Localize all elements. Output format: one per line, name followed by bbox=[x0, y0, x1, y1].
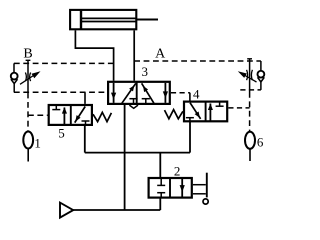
valve 4 left square diagonal arrow bbox=[190, 103, 201, 119]
wire supply manifold horizontal bbox=[85, 152, 190, 154]
pilot line A (dashed) bbox=[134, 60, 261, 62]
svg-text:A: A bbox=[155, 47, 166, 62]
valve 4 left square blocked port T bbox=[186, 118, 194, 122]
label A bbox=[155, 47, 166, 62]
svg-text:2: 2 bbox=[174, 164, 181, 179]
valve 2 bottom blocked port T bbox=[157, 193, 165, 198]
label 1 bbox=[34, 135, 41, 150]
valve 3 right pilot line (dashed) bbox=[171, 92, 190, 94]
valve 5 spring bbox=[93, 112, 111, 121]
valve 2 roller lever bbox=[206, 173, 208, 198]
valve 3 left square blocked port T bbox=[129, 99, 137, 104]
valve 3 left square down arrow bbox=[111, 83, 116, 103]
svg-text:1: 1 bbox=[34, 135, 41, 150]
cylinder body bbox=[70, 10, 136, 29]
valve 5 body bbox=[49, 105, 92, 125]
cylinder rod external bbox=[136, 19, 158, 21]
svg-text:B: B bbox=[23, 47, 32, 62]
flow control valve 6R: bottom dashed line bbox=[240, 89, 261, 91]
valve 4 body bbox=[184, 102, 227, 122]
svg-text:5: 5 bbox=[58, 126, 65, 141]
flow control valve 1L: throttle line bbox=[26, 60, 31, 92]
label B bbox=[23, 47, 32, 62]
flow control valve 1L: check valve ball bbox=[11, 73, 18, 80]
component 1 (oval) bbox=[23, 132, 33, 162]
flow control valve 1L: check branch line bbox=[13, 63, 15, 92]
wire valve 2 top riser bbox=[159, 153, 161, 178]
valve 2 roller wheel bbox=[203, 199, 208, 204]
wire supply riser valve 3 to source line bbox=[124, 104, 126, 210]
valve 4 right square up arrow bbox=[208, 103, 213, 121]
flow control valve 1L: adjust arrow bbox=[20, 71, 41, 84]
flow control valve 6R: check valve seat bbox=[258, 77, 265, 82]
valve 5 left square up arrow bbox=[62, 107, 67, 125]
wire source line bbox=[73, 209, 160, 211]
valve 2 body bbox=[149, 178, 192, 198]
valve 3 exhaust V bbox=[129, 105, 138, 108]
svg-text:3: 3 bbox=[142, 64, 149, 79]
valve 3 right square blocked port T bbox=[142, 99, 150, 104]
valve 5 right square diagonal arrow bbox=[75, 107, 86, 123]
wire valve 4 bottom riser bbox=[189, 122, 191, 153]
label 4 bbox=[193, 87, 200, 102]
label 5 bbox=[58, 126, 65, 141]
svg-text:4: 4 bbox=[193, 87, 200, 102]
valve 4 right square blocked port T bbox=[216, 102, 224, 107]
valve 4 spring bbox=[165, 110, 183, 119]
valve 3 right square down arrow bbox=[163, 83, 168, 103]
valve 2 top blocked port T bbox=[157, 178, 165, 185]
svg-text:6: 6 bbox=[257, 134, 264, 149]
valve 4 right pilot line (dashed) bbox=[228, 107, 249, 109]
flow control valve 1L: check valve seat bbox=[11, 79, 18, 83]
wire valve 2 bottom riser bbox=[159, 198, 161, 210]
valve 3 body bbox=[108, 82, 170, 104]
flow control valve 1L: throttle arcs bbox=[25, 73, 30, 82]
valve 2 roller actuator stems bbox=[193, 185, 206, 194]
valve 5 right square blocked port T bbox=[82, 121, 90, 125]
wire valve 5 output stub bbox=[84, 92, 86, 104]
pilot drop line left (dashed) bbox=[28, 93, 48, 132]
pilot line to valve 3 left pilot (dashed) bbox=[14, 91, 107, 93]
valve 3 left square diagonal arrow bbox=[122, 83, 136, 103]
cylinder rod (double line inside) bbox=[82, 18, 136, 21]
flow control valve 6R: throttle line bbox=[247, 59, 252, 92]
cylinder piston bbox=[80, 10, 82, 29]
wire cylinder right port to valve 3 top-right port bbox=[133, 30, 135, 80]
flow control valve 6R: adjust arrow bbox=[238, 71, 257, 82]
pilot line B (dashed) bbox=[14, 62, 114, 64]
flow control valve 6R: check branch line bbox=[260, 61, 262, 90]
flow control valve 6R: throttle arcs bbox=[247, 70, 253, 80]
air source triangle bbox=[60, 203, 73, 218]
wire cylinder left port to valve 3 top-left port bbox=[75, 30, 113, 80]
wire valve 4 output to valve 3 right pilot bbox=[189, 93, 191, 101]
valve 5 left square blocked port T bbox=[52, 105, 60, 110]
label 2 bbox=[174, 164, 181, 179]
flow control valve 6R: check valve ball bbox=[258, 71, 265, 78]
wire valve 5 bottom riser bbox=[84, 125, 86, 153]
component 6 (oval) bbox=[245, 132, 255, 161]
pilot drop line right (dashed) bbox=[249, 92, 251, 132]
label 6 bbox=[257, 134, 264, 149]
valve 3 right square diagonal arrow bbox=[142, 83, 154, 103]
valve 2 right square down arrow bbox=[180, 179, 185, 197]
label 3 bbox=[142, 64, 149, 79]
